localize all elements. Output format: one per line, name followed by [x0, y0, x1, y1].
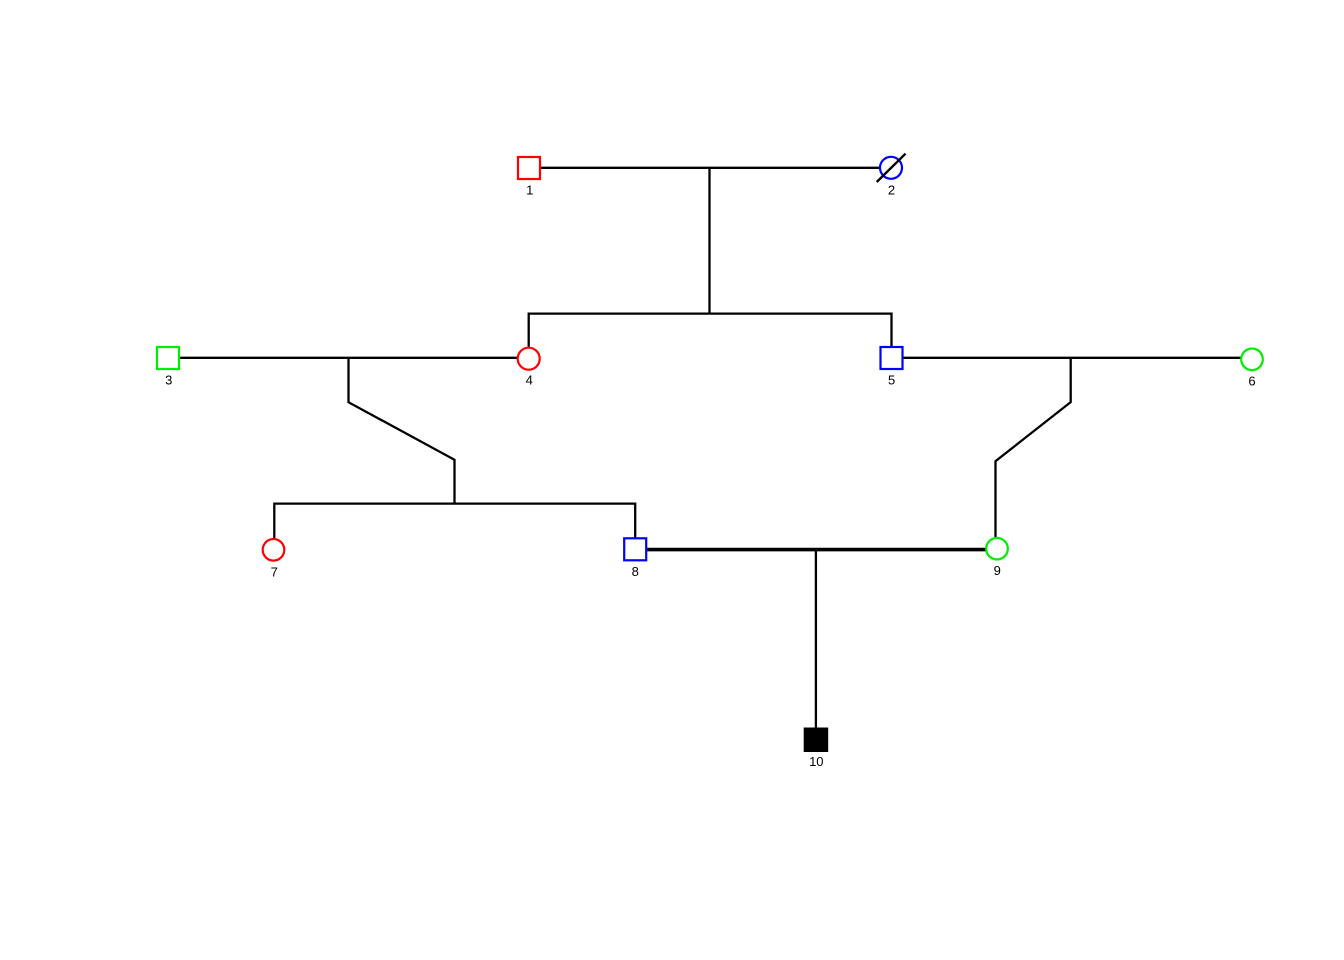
wire descent from couple 3-4 to sibling bar	[349, 358, 455, 504]
wire drop to individual 5	[890, 313, 892, 349]
individual 7: female circle, red outline	[263, 539, 285, 561]
svg-text:6: 6	[1248, 374, 1255, 389]
wire descent from couple 8-9 to individual 10	[815, 550, 817, 728]
svg-text:3: 3	[165, 373, 172, 388]
wire sibling bar children of 3-4	[274, 502, 635, 504]
wire drop to individual 8	[634, 503, 636, 539]
individual 4: female circle, red outline	[518, 348, 540, 370]
svg-text:1: 1	[526, 183, 533, 198]
wire sibling bar generation 2	[529, 312, 892, 314]
wire thick marriage line 8-9	[647, 548, 988, 552]
svg-text:7: 7	[271, 564, 278, 579]
wire couple line 5-6	[902, 357, 1242, 359]
svg-text:9: 9	[994, 563, 1001, 578]
individual 10: male square, black filled (affected)	[804, 728, 828, 752]
svg-text:8: 8	[632, 564, 639, 579]
svg-text:10: 10	[809, 754, 823, 769]
wire drop to individual 7	[273, 503, 275, 540]
wire drop to individual 4	[528, 313, 530, 349]
svg-text:2: 2	[888, 183, 895, 198]
wire couple line 3-4	[179, 357, 518, 359]
individual 1: male square, red outline	[518, 157, 540, 179]
deceased slash on individual 2	[877, 154, 906, 182]
svg-text:4: 4	[526, 373, 533, 388]
wire couple line 1-2	[540, 167, 880, 169]
wire descent from couple 1-2	[708, 168, 710, 314]
individual 9: female circle, green outline	[986, 538, 1008, 560]
individual 2: female circle, blue outline, deceased	[880, 157, 902, 179]
individual 8: male square, blue outline	[624, 538, 646, 560]
individual 5: male square, blue outline	[881, 347, 903, 369]
wire descent from couple 5-6 to individual 9	[996, 358, 1071, 539]
individual 6: female circle, green outline	[1241, 349, 1263, 371]
individual 3: male square, green outline	[157, 347, 179, 369]
svg-text:5: 5	[888, 373, 895, 388]
